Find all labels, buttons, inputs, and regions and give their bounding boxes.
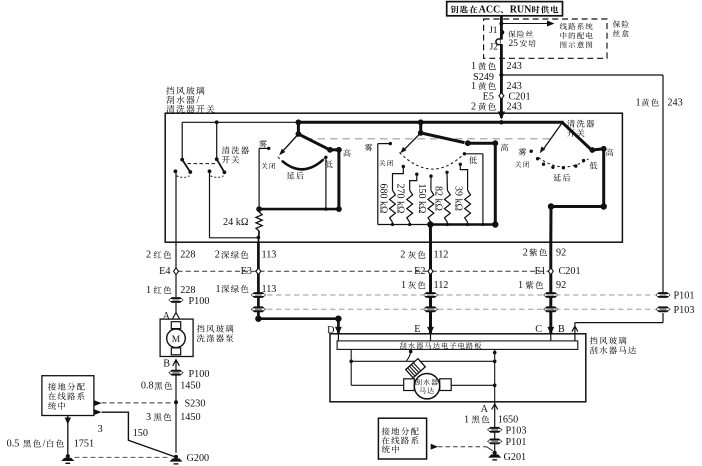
SW1 common rail bbox=[259, 208, 339, 211]
svg-text:E2: E2 bbox=[414, 266, 425, 277]
svg-text:1650: 1650 bbox=[498, 414, 518, 425]
splice S230 bbox=[174, 400, 178, 404]
svg-text:1: 1 bbox=[471, 81, 476, 92]
svg-text:B: B bbox=[163, 359, 170, 370]
wire: washer switch to red exit bbox=[175, 172, 177, 242]
svg-text:2: 2 bbox=[146, 250, 151, 261]
washer switch SW-A pole 2 bbox=[216, 122, 218, 158]
svg-text:0.8: 0.8 bbox=[141, 381, 154, 392]
connector C201 (dashed line E4..E1) bbox=[178, 270, 551, 272]
svg-text:J1: J1 bbox=[489, 26, 498, 36]
connector P103 (motor ground) bbox=[487, 427, 502, 433]
resistor 270 kOhm with tap bbox=[410, 174, 417, 190]
svg-text:G200: G200 bbox=[187, 453, 210, 464]
washer switch SW3 pivot from bus bbox=[561, 121, 564, 125]
SW2 resistor common rail bbox=[378, 224, 431, 226]
svg-text:ACC: ACC bbox=[479, 4, 501, 15]
svg-text:1: 1 bbox=[401, 280, 406, 291]
switch assembly label bbox=[166, 87, 174, 95]
svg-text:2: 2 bbox=[400, 250, 405, 261]
reference arrow to S230 bbox=[94, 400, 101, 406]
svg-text:1450: 1450 bbox=[180, 381, 200, 392]
ground G202 bbox=[61, 454, 74, 464]
svg-text:E4: E4 bbox=[159, 266, 170, 277]
connector P100 (pump side) bbox=[168, 297, 183, 303]
resistor 150 kOhm with tap bbox=[430, 176, 432, 190]
note text: distribution schematic in wiring system bbox=[560, 23, 567, 30]
svg-text:J2: J2 bbox=[490, 43, 499, 53]
svg-text:P101: P101 bbox=[674, 290, 695, 301]
svg-text:P101: P101 bbox=[506, 437, 527, 448]
svg-text:113: 113 bbox=[262, 250, 277, 261]
svg-text:1: 1 bbox=[464, 414, 469, 425]
SW1 travel arc (dashed) bbox=[278, 157, 326, 170]
svg-text:112: 112 bbox=[434, 280, 449, 291]
svg-text:270 kΩ: 270 kΩ bbox=[395, 184, 406, 214]
dashed ground reference to G200 bbox=[75, 456, 171, 458]
svg-text:RUN: RUN bbox=[510, 4, 532, 15]
arrow into switch assembly bbox=[498, 112, 505, 120]
wire: SW3 high contact down (thick) bbox=[602, 149, 605, 207]
resistor 39 kOhm with tap bbox=[460, 164, 467, 190]
wire: right branch to motor pin B bbox=[662, 313, 664, 323]
svg-text:E1: E1 bbox=[535, 266, 546, 277]
connectors P101/P103 on gray wire bbox=[423, 292, 438, 298]
splice S249 bbox=[499, 73, 503, 77]
svg-text:3: 3 bbox=[98, 424, 103, 435]
svg-text:E3: E3 bbox=[241, 266, 252, 277]
connectors P101/P103 on right branch wire bbox=[655, 292, 670, 298]
SW3 blade to high contact bbox=[562, 123, 590, 150]
windshield wiper/washer switch box bbox=[165, 113, 622, 242]
svg-text:S230: S230 bbox=[185, 399, 206, 410]
svg-text:0.5: 0.5 bbox=[7, 439, 20, 450]
svg-text:2: 2 bbox=[215, 250, 220, 261]
SW1 high contact bbox=[336, 147, 342, 153]
dark green wire 2 DK-GRN 113 bbox=[257, 242, 260, 319]
washer switch label bbox=[222, 146, 230, 154]
svg-text:P103: P103 bbox=[674, 305, 695, 316]
SW3 wiper arm (off position arrow) bbox=[543, 123, 562, 150]
connector row P101 (dashed) bbox=[267, 294, 655, 296]
svg-text:243: 243 bbox=[507, 102, 522, 113]
fuse F 25A between pins J1/J2 bbox=[502, 30, 505, 35]
SW2 position labels bbox=[365, 144, 373, 152]
svg-text:A: A bbox=[163, 311, 171, 322]
svg-text:/: / bbox=[43, 439, 46, 450]
svg-text:E5: E5 bbox=[483, 91, 494, 102]
svg-text:150 kΩ: 150 kΩ bbox=[416, 184, 427, 214]
svg-text:1: 1 bbox=[216, 284, 221, 295]
wiper motor M bbox=[414, 374, 439, 399]
wire: circuit 150 ground lead bbox=[102, 412, 176, 457]
node on feed line bbox=[215, 120, 219, 124]
svg-text:P100: P100 bbox=[189, 369, 210, 380]
connector P101 (motor ground) bbox=[487, 439, 502, 445]
wiper drive link symbol bbox=[406, 359, 426, 378]
ground G201 bbox=[488, 451, 501, 461]
washer pump motor box bbox=[160, 319, 193, 356]
SW3 position labels bbox=[519, 148, 527, 156]
wire: motor ground A out bbox=[494, 402, 496, 453]
SW2 blade to high contact bbox=[421, 133, 465, 143]
SW1 mist contact and wire bbox=[267, 147, 270, 150]
SW2 mist contact and wire bbox=[389, 142, 392, 145]
wire: SW2 high to rail (thick) bbox=[494, 143, 497, 224]
reference arrow to G201 wire bbox=[431, 444, 438, 450]
ground distribution reference box (left) bbox=[42, 376, 94, 416]
svg-text:82 kΩ: 82 kΩ bbox=[432, 186, 443, 211]
reference arrow to ground lead bbox=[94, 409, 101, 415]
bus: thick supply rail across switches bbox=[297, 121, 564, 124]
svg-text:680 kΩ: 680 kΩ bbox=[378, 184, 389, 214]
svg-text:1: 1 bbox=[146, 285, 151, 296]
SW3 high contact bbox=[601, 146, 607, 152]
wire: washer switch pole2 to 24k node bbox=[209, 172, 211, 238]
ground distribution reference box (middle) bbox=[378, 418, 426, 459]
SW3 label bbox=[567, 120, 575, 128]
purple wire 2 PPL 92 bbox=[549, 242, 552, 334]
svg-text:C201: C201 bbox=[559, 266, 581, 277]
wire: SW2 output exits box (gray) bbox=[429, 225, 432, 243]
svg-text:2: 2 bbox=[471, 102, 476, 113]
svg-text:M: M bbox=[172, 335, 181, 345]
wire: branch to right via S249 bbox=[501, 74, 663, 76]
reference arrow to power distribution diagram bbox=[501, 23, 548, 25]
node: dark green to wiper motor D bbox=[255, 316, 261, 322]
svg-text:1: 1 bbox=[636, 98, 641, 109]
resistor 82 kOhm with tap bbox=[446, 172, 448, 190]
SW3 travel arc (dashed) with contact nodes bbox=[539, 158, 589, 167]
svg-text:243: 243 bbox=[507, 61, 522, 72]
svg-text:/: / bbox=[197, 95, 200, 106]
fuse box (dashed) bbox=[484, 19, 607, 58]
red wire 2 RED 228 to washer pump bbox=[175, 242, 177, 297]
svg-text:P100: P100 bbox=[189, 296, 210, 307]
wiper switch SW2 pivot bbox=[418, 119, 424, 125]
svg-text:150: 150 bbox=[133, 428, 148, 439]
wire: SW1 high to rail (thick) bbox=[337, 150, 340, 209]
wire: 0.5 BLK/WHT 1751 to ground bbox=[67, 416, 69, 457]
svg-text:P103: P103 bbox=[506, 426, 527, 437]
svg-text:228: 228 bbox=[180, 250, 195, 261]
SW2 low contact and wire bbox=[463, 152, 466, 155]
SW1 wiper arm (off position arrow) bbox=[282, 134, 298, 152]
connectors P101/P103 on purple wire bbox=[543, 292, 558, 298]
svg-text:228: 228 bbox=[180, 285, 195, 296]
SW1 position labels bbox=[259, 140, 267, 148]
wiper motor electronic circuit board bbox=[337, 341, 578, 350]
SW2 arc contact nodes bbox=[402, 165, 405, 168]
svg-text:39 kΩ: 39 kΩ bbox=[453, 186, 464, 211]
mechanical link between poles bbox=[188, 163, 216, 165]
svg-text:1450: 1450 bbox=[180, 412, 200, 423]
SW1 delay arc (thick) bbox=[282, 160, 323, 170]
svg-text:112: 112 bbox=[434, 250, 449, 261]
connector P100 (harness side) bbox=[168, 370, 183, 376]
wire: main feed from key switch bbox=[500, 16, 503, 118]
connectors P101/P103 on dark green wire bbox=[251, 292, 266, 298]
SW1 blade to high contact bbox=[298, 134, 328, 149]
mechanical coupling (dashed, gray) bbox=[305, 138, 552, 140]
svg-text:1751: 1751 bbox=[74, 439, 94, 450]
gray wire 2 GRY 112 bbox=[429, 242, 432, 334]
svg-text:A: A bbox=[481, 404, 489, 415]
resistor 680 kOhm with tap bbox=[393, 167, 404, 191]
connector row P103 (dashed) bbox=[267, 308, 655, 310]
washer switch SW-A pole 1 bbox=[181, 122, 183, 158]
svg-text:25: 25 bbox=[509, 39, 519, 49]
svg-text:24 kΩ: 24 kΩ bbox=[223, 217, 249, 228]
SW3 mist contact bbox=[530, 150, 533, 153]
svg-text:S249: S249 bbox=[473, 72, 494, 83]
ground G200 bbox=[169, 455, 182, 465]
svg-text:3: 3 bbox=[146, 412, 151, 423]
SW2 high contact bbox=[492, 140, 498, 146]
washer pump label bbox=[197, 325, 205, 333]
svg-text:92: 92 bbox=[556, 247, 566, 258]
svg-text:2: 2 bbox=[523, 247, 528, 258]
SW2 travel arc (dashed) bbox=[400, 153, 465, 170]
svg-text:1: 1 bbox=[518, 280, 523, 291]
svg-text:92: 92 bbox=[556, 280, 566, 291]
windshield wiper motor box bbox=[330, 334, 586, 402]
wire: board to ground pin A bbox=[494, 349, 496, 401]
SW1 low contact and wire bbox=[324, 156, 327, 159]
svg-text:243: 243 bbox=[667, 98, 682, 109]
svg-text:1: 1 bbox=[471, 61, 476, 72]
power feed label box: key in ACC/RUN bbox=[447, 2, 563, 16]
wire: SW3 output exits box (purple) bbox=[549, 207, 552, 243]
wiper switch SW1 pivot bbox=[296, 119, 302, 125]
SW2 wiper arm (off position arrow) bbox=[404, 133, 421, 150]
junction: supply entry to bus bbox=[499, 120, 503, 124]
resistor 24 kOhm bbox=[256, 212, 262, 231]
svg-text:G201: G201 bbox=[504, 452, 527, 463]
node: fuse box tap junction bbox=[499, 22, 503, 26]
board internal wiring bbox=[350, 349, 352, 385]
motor supply rails bbox=[351, 384, 404, 386]
wire: feed to washer switch poles bbox=[182, 121, 296, 123]
